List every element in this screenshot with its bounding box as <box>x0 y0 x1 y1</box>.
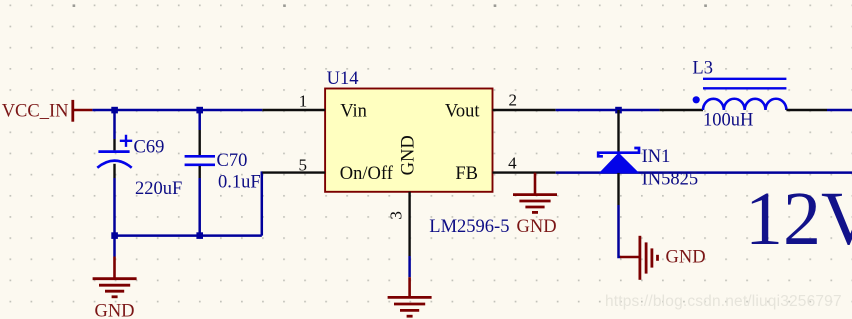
svg-text:On/Off: On/Off <box>340 164 394 184</box>
wire diode to ground <box>619 205 621 257</box>
capacitor C70 <box>185 130 215 178</box>
svg-text:GND: GND <box>94 302 134 319</box>
svg-text:3: 3 <box>387 211 406 220</box>
wire pin 2 to diode junction <box>556 109 660 112</box>
svg-text:Vout: Vout <box>445 102 480 122</box>
junction top rail at C69 <box>111 107 118 114</box>
svg-text:C69: C69 <box>134 138 165 158</box>
inductor L3 left pin <box>660 109 703 111</box>
svg-text:0.1uF: 0.1uF <box>218 172 261 192</box>
ground GND (input rail) <box>93 257 137 319</box>
svg-text:4: 4 <box>508 153 517 172</box>
svg-text:Vin: Vin <box>340 102 367 122</box>
svg-text:2: 2 <box>508 90 517 109</box>
pin 5 <box>262 155 325 174</box>
diode IN1 (schottky) <box>598 148 639 173</box>
wire output to right edge <box>827 109 852 112</box>
svg-text:VCC_IN: VCC_IN <box>2 102 69 122</box>
svg-text:IN5825: IN5825 <box>642 169 699 189</box>
diode IN1 top pin <box>617 110 619 152</box>
svg-text:L3: L3 <box>692 59 713 79</box>
IC U14 LM2596-5 regulator <box>325 69 492 192</box>
wire bottom ground rail <box>115 234 262 237</box>
power port VCC_IN <box>2 100 93 122</box>
diode IN1 bottom pin <box>617 173 619 205</box>
svg-text:IN1: IN1 <box>642 147 671 167</box>
inductor L3 <box>693 79 787 110</box>
svg-text:220uF: 220uF <box>135 179 182 199</box>
junction top rail at C70 <box>196 107 203 114</box>
junction bottom rail at C70 <box>196 232 203 239</box>
wire FB rail to right edge <box>556 171 852 174</box>
wire C69 bottom <box>113 178 116 257</box>
wire C70 bottom <box>198 178 201 236</box>
svg-text:1: 1 <box>299 92 308 111</box>
capacitor C69 <box>97 135 132 178</box>
wire VCC_IN rail to U14 pin 1 <box>92 109 262 112</box>
svg-text:FB: FB <box>455 164 478 184</box>
wire C70 top <box>198 110 201 130</box>
pin 1 <box>262 92 325 111</box>
ground GND (diode, sideways) <box>620 236 706 280</box>
svg-text:GND: GND <box>666 248 706 268</box>
pin 3 <box>387 192 410 256</box>
ground GND (pin 3) <box>388 277 432 316</box>
wire pin 3 to ground <box>408 256 411 277</box>
junction switch node <box>615 107 622 114</box>
svg-text:GND: GND <box>517 217 557 237</box>
svg-text:12V: 12V <box>745 177 852 261</box>
pin 2 <box>493 90 556 110</box>
svg-text:C70: C70 <box>217 151 248 171</box>
wire On/Off riser <box>262 173 263 236</box>
svg-text:LM2596-5: LM2596-5 <box>429 217 509 237</box>
pin 4 <box>493 153 556 172</box>
svg-text:100uH: 100uH <box>703 111 753 131</box>
junction bottom rail at C69 <box>111 232 118 239</box>
wire C69 top <box>113 110 116 139</box>
inductor L3 right pin <box>786 109 827 111</box>
svg-text:U14: U14 <box>327 69 359 89</box>
svg-text:5: 5 <box>298 155 307 174</box>
svg-text:GND: GND <box>399 135 419 175</box>
svg-text:https://blog.csdn.net/liuqi325: https://blog.csdn.net/liuqi3256797 <box>605 293 842 310</box>
ground GND (pin 4) <box>513 173 557 237</box>
